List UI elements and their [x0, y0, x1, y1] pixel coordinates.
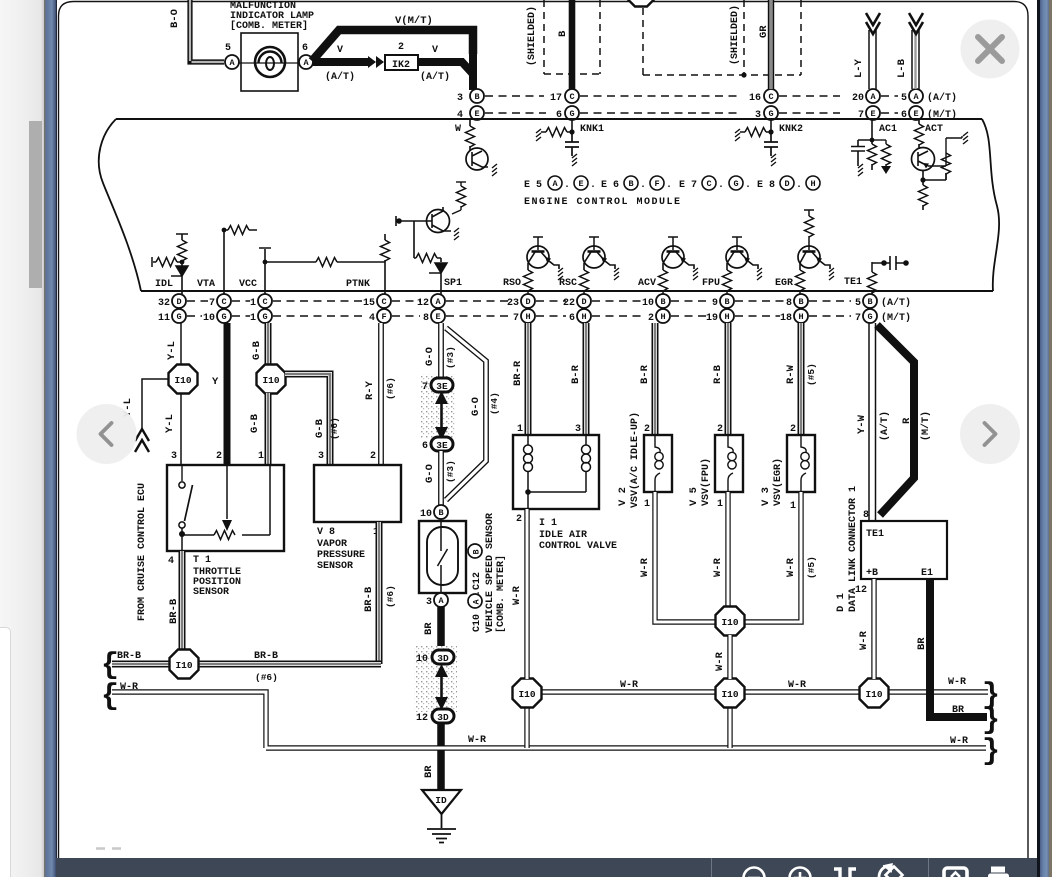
wire R-Y to vapor sensor pin 2	[378, 323, 384, 465]
shield box (SHIELDED) around wire GR	[643, 0, 801, 75]
wire VTA (Y) thick	[224, 323, 231, 465]
VSV V5 body	[715, 435, 743, 492]
wire BR from E1	[926, 579, 987, 717]
toolbar icon rotate	[879, 864, 902, 877]
pin 7 C / pin 10 G (VTA)	[203, 294, 231, 324]
pin 9 B / pin 19 H (FPU)	[706, 294, 734, 324]
page bottom dashes	[96, 847, 121, 849]
vapor pressure sensor V8 body	[314, 465, 401, 522]
wire BR to ground	[437, 723, 445, 789]
wire W-R left run and lower run	[112, 692, 986, 748]
junction arrows between 3E connectors	[440, 404, 443, 427]
connector A pin 3	[426, 593, 448, 608]
driver transistor Q-FPU with resistor	[702, 237, 762, 294]
pin 15 C / pin 4 F (PTNK)	[363, 294, 391, 324]
connector C pin 17	[550, 89, 579, 104]
idle air control valve I1 body	[513, 435, 599, 509]
wire Y-L lower segment to TPS pin 3	[180, 393, 182, 465]
pin 1 C / pin 1 G (VCC)	[250, 294, 272, 324]
pin 5 B (A/T) / pin 7 G (M/T) (TE1)	[855, 294, 911, 324]
arrow >> on V wire	[368, 56, 384, 68]
lamp MIL (comb. meter)	[239, 33, 299, 91]
dashed net row y113	[485, 112, 898, 114]
driver transistor Q-EGR with resistor above and below	[775, 210, 834, 294]
connector G pin 3	[755, 106, 778, 121]
transistor Q-ACT with resistor	[912, 120, 969, 210]
dashed net pin row 1	[187, 300, 851, 302]
potentiometer resistor	[182, 466, 270, 535]
connector G pin 6	[556, 106, 579, 121]
label E5/E6/E7/E8 connector letters	[524, 180, 802, 191]
connector B pin 10	[420, 505, 448, 520]
connector 3E pin 7	[422, 378, 453, 393]
wire G-B upper	[265, 323, 272, 365]
wire R-W (#5) to V3 pin 2	[798, 323, 805, 435]
label V 8 VAPOR PRESSURE SENSOR	[317, 527, 365, 572]
ground	[427, 814, 456, 843]
label T 1 THROTTLE POSITION SENSOR	[193, 555, 241, 598]
stipple behind 3D connectors	[414, 646, 457, 712]
VSV V3 body	[787, 435, 815, 492]
wire G-O upper	[438, 323, 444, 378]
label V (A/T) left	[325, 45, 355, 83]
wire BR-B from pin 4	[179, 551, 186, 662]
driver transistor Q-ACV with resistor	[638, 237, 698, 294]
throttle position sensor T1 body	[167, 465, 284, 551]
node TE1 (resistor + capacitor)	[844, 256, 909, 294]
node VTA (resistor stub)	[197, 226, 257, 295]
junction I10 (data link)	[860, 679, 889, 708]
wire R-B to V5 pin 2	[725, 323, 732, 435]
wire G-B lower to TPS pin 1	[265, 393, 272, 465]
toolbar icon export	[944, 868, 967, 877]
dashed net row y96	[485, 95, 898, 97]
connector octagon (top, partial)	[627, 0, 656, 7]
wire W-R from V2	[655, 492, 716, 622]
node KNK1 (resistor + capacitor to ground)	[536, 120, 604, 166]
wire B-R to V2 pin 2	[652, 323, 659, 435]
ground connector ID	[422, 790, 461, 814]
wire W-R from +B	[871, 579, 876, 679]
next button	[960, 404, 1020, 464]
wire V(M/T) thick upper path	[312, 30, 473, 61]
label MALFUNCTION INDICATOR LAMP [COMB. METER]	[230, 1, 314, 32]
connector E pin 7	[858, 106, 880, 121]
transistor Q-SP1 with resistor and diode	[396, 182, 466, 294]
wire B (shielded)	[569, 0, 576, 89]
junction I10 (idle air)	[513, 679, 542, 708]
coil	[728, 435, 733, 492]
vehicle speed sensor body	[419, 521, 466, 593]
node IDL (resistor + diode)	[152, 234, 188, 294]
transistor Q-W with resistor (W output)	[455, 120, 497, 176]
wire V(A/T) thick lower path through IK2	[313, 62, 473, 90]
junction I10	[169, 365, 198, 394]
connector E pin 4	[457, 106, 484, 121]
wire BR from speed sensor	[437, 607, 445, 651]
connector B pin 3	[457, 89, 484, 104]
connector 3D pin 12	[416, 709, 454, 724]
junction I10	[257, 365, 286, 394]
pin 12 A / pin 8 E (SP1)	[417, 294, 445, 324]
node AC1 (capacitor + resistor to ground)	[851, 120, 897, 176]
pin 10 B / pin 2 H (ACV)	[642, 294, 670, 324]
wiper arrow from pin 2	[226, 465, 228, 519]
junction I10 (vsv)	[716, 679, 745, 708]
wire G-O (#4) bypass	[446, 328, 486, 500]
toolbar icon zoom-out	[744, 868, 765, 877]
shield box (SHIELDED) around wire B	[544, 0, 600, 74]
pin 22 D / pin 6 H (RSC)	[563, 294, 591, 324]
connector A pin 20	[852, 89, 880, 104]
wire W-R from V5	[725, 492, 730, 608]
toolbar icon zoom-in	[790, 868, 811, 877]
wire Y-L branch to cruise control ECU	[142, 379, 169, 428]
pin 32 D / pin 11 G (IDL)	[158, 294, 186, 324]
coil	[655, 435, 660, 492]
wire Y-L upper segment	[180, 323, 182, 365]
wire L-B (incoming arrow, shielded)	[909, 13, 923, 89]
switch contact (IDL)	[181, 465, 183, 481]
close button	[961, 20, 1020, 79]
wire B-R to IACV pin 3	[583, 323, 590, 435]
toolbar icon print	[988, 867, 1009, 877]
coil	[801, 435, 806, 492]
wire W-R main bus	[527, 692, 988, 748]
wire R (M/T) thick	[877, 325, 914, 515]
junction I10 (vsv returns)	[716, 607, 745, 636]
junction node	[525, 489, 531, 495]
wire GR (shield drain)	[768, 0, 774, 89]
connector A pin 5 (A/T)	[901, 89, 957, 104]
wire BR-R to IACV pin 1	[525, 323, 532, 435]
connector E pin 6 (M/T)	[901, 106, 957, 121]
wire G-B branch to vapor sensor pin 3	[285, 374, 330, 465]
wire W-R (#5) from V3	[744, 492, 801, 622]
junction I10	[170, 650, 199, 679]
connector C pin 16	[749, 89, 778, 104]
wire W-R to bus	[727, 635, 732, 679]
junction arrows between 3D connectors	[440, 677, 443, 697]
wire L-Y (incoming arrow)	[866, 13, 880, 89]
connector 3D pin 10	[416, 650, 454, 665]
toolbar icon fit	[834, 869, 856, 877]
coil L1	[527, 435, 529, 492]
wire W-R from pin 2	[524, 509, 529, 679]
driver transistor Q-RSO with resistor	[503, 237, 563, 294]
connector A pin 6	[299, 43, 313, 69]
data link connector 1 D1 body TE1	[861, 521, 947, 579]
VSV V2 body	[644, 435, 672, 492]
wire BR-B (#6) from pin 1	[376, 522, 383, 664]
wire B-O (shielded, from top)	[190, 0, 224, 62]
connector 3E pin 6	[422, 437, 453, 452]
label I 1 IDLE AIR CONTROL VALVE	[539, 518, 617, 552]
label V (A/T) right	[420, 45, 450, 83]
relay block IK2 pin 2	[385, 42, 418, 71]
prev button	[77, 404, 137, 464]
pin 23 D / pin 7 H (RSO)	[507, 294, 535, 324]
driver transistor Q-RSC with resistor	[559, 237, 619, 294]
node VCC (resistor to PTNK)	[239, 248, 385, 294]
wire Y-W (A/T) thin	[869, 323, 876, 521]
connector A pin 5	[225, 43, 239, 69]
wire BR-B bus	[112, 661, 381, 668]
coil L2	[585, 435, 587, 492]
pin 8 B / pin 18 H (EGR)	[780, 294, 808, 324]
junction to pin B	[469, 54, 477, 90]
wire G-O lower	[438, 451, 444, 505]
stipple behind 3E connectors	[420, 374, 456, 438]
dashed net pin row 2	[187, 315, 851, 317]
node KNK2 (resistor + capacitor to ground)	[735, 120, 803, 166]
node PTNK (resistor)	[346, 234, 390, 294]
ECM U1 body outline (torn edges)	[116, 118, 982, 120]
